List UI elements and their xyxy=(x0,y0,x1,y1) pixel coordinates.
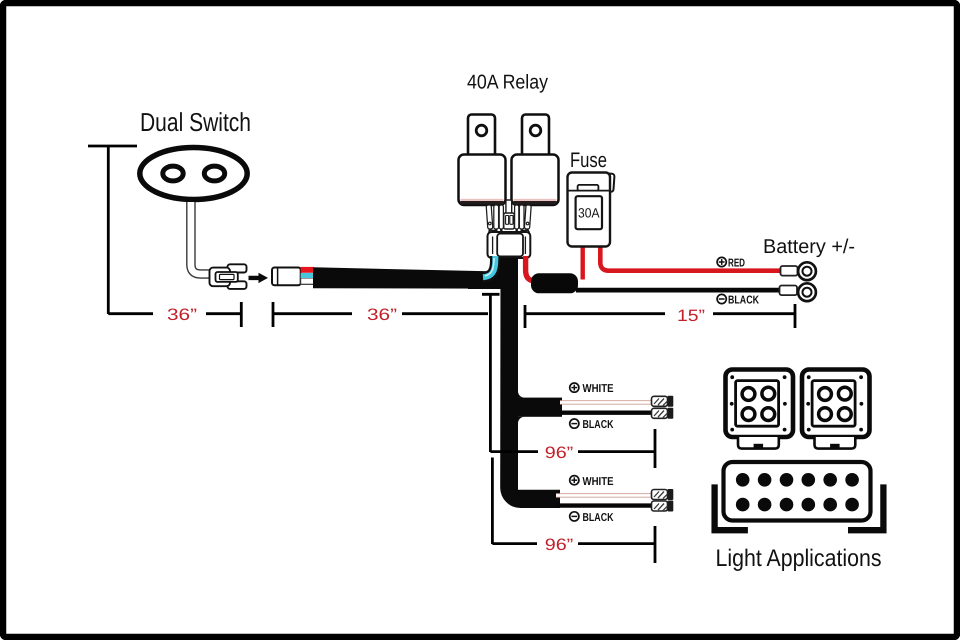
switch SW1 right button xyxy=(204,166,224,181)
fuse holder F1 xyxy=(568,173,615,247)
svg-text:96”: 96” xyxy=(545,536,574,554)
svg-text:BLACK: BLACK xyxy=(583,419,615,431)
red wire (splice to fuse) xyxy=(581,246,585,280)
branch1 white wire xyxy=(560,400,652,404)
light bar L3 LEDs row2 xyxy=(736,498,859,512)
relay K2 body xyxy=(512,155,559,206)
relay K1 blade terminal xyxy=(468,115,495,159)
branch2 minus BLACK label xyxy=(570,512,614,524)
pod light L1 bracket xyxy=(738,437,779,449)
minus BLACK label xyxy=(717,294,759,306)
dim line 15in (battery) xyxy=(525,304,795,328)
branch1 black bullet connector xyxy=(652,408,674,419)
arrow (mate direction) xyxy=(249,273,269,283)
svg-text:Light Applications: Light Applications xyxy=(716,545,882,572)
splice sleeve xyxy=(531,273,578,293)
switch SW1 oval body xyxy=(140,148,247,200)
branch1 white bullet connector xyxy=(652,396,674,407)
pod light L2 bracket xyxy=(815,437,856,449)
relay K1 body xyxy=(459,155,506,206)
relay pins xyxy=(486,200,531,229)
branch2 white bullet connector xyxy=(652,489,674,500)
svg-text:96”: 96” xyxy=(545,444,574,462)
svg-text:BLACK: BLACK xyxy=(583,512,615,524)
connector J2 (harness side receptacle) xyxy=(272,268,314,286)
light bar L3 housing xyxy=(724,462,871,521)
red battery ring terminal xyxy=(781,262,816,280)
branch2 plus WHITE label xyxy=(570,476,614,488)
branch2 black bullet connector xyxy=(652,501,674,512)
svg-text:WHITE: WHITE xyxy=(583,383,614,395)
svg-text:BLACK: BLACK xyxy=(728,295,760,307)
red wire (housing to splice) xyxy=(526,256,540,281)
light bar left mount bracket xyxy=(715,484,748,530)
red wire (fuse to battery) xyxy=(600,246,781,271)
red lead into cable xyxy=(301,267,314,273)
branch1 plus WHITE label xyxy=(570,383,614,395)
branch1 black wire xyxy=(560,411,652,415)
branch1 minus BLACK label xyxy=(570,419,614,431)
relay pin tips xyxy=(490,229,528,232)
connector J1 (switch side plug) xyxy=(210,264,247,289)
trunk cable (main harness down) xyxy=(500,258,560,508)
black wire (splice to battery) xyxy=(576,288,781,293)
dim line 36in (cable) xyxy=(273,302,488,327)
svg-text:30A: 30A xyxy=(578,206,600,221)
teal lead into cable xyxy=(301,273,314,278)
pod light L1 xyxy=(726,370,794,438)
branch2 black wire xyxy=(556,503,652,507)
dim bracket 96in (branch2) xyxy=(492,458,655,564)
svg-text:WHITE: WHITE xyxy=(583,476,614,488)
cable (switch to junction, 36in section) xyxy=(313,267,500,288)
pod light L2 xyxy=(802,370,870,438)
wire from switch to connector xyxy=(191,202,210,274)
relay K2 blade terminal xyxy=(522,115,549,159)
branch 1 lead (upper light lead) xyxy=(517,398,562,417)
dimension bracket left (switch drop) xyxy=(88,146,153,314)
dim line 36in (switch) right part xyxy=(206,302,241,327)
svg-text:36”: 36” xyxy=(167,306,197,324)
black battery ring terminal xyxy=(780,283,816,301)
teal wire (housing to cable junction) xyxy=(483,256,495,277)
junction fillet xyxy=(468,255,501,289)
switch SW1 left button xyxy=(163,166,183,181)
plus RED label xyxy=(717,257,745,269)
svg-text:36”: 36” xyxy=(367,306,397,324)
light bar right mount bracket xyxy=(848,484,883,530)
relay socket housing xyxy=(488,230,531,258)
svg-text:Fuse: Fuse xyxy=(570,149,607,172)
light bar L3 LEDs row1 xyxy=(736,473,859,487)
svg-text:Dual Switch: Dual Switch xyxy=(140,107,251,137)
svg-text:15”: 15” xyxy=(677,307,705,325)
dim bracket 96in (branch1) xyxy=(482,294,655,468)
svg-text:Battery +/-: Battery +/- xyxy=(763,236,855,258)
svg-text:RED: RED xyxy=(728,258,745,270)
branch2 white wire xyxy=(556,493,652,497)
svg-text:40A Relay: 40A Relay xyxy=(467,72,548,94)
